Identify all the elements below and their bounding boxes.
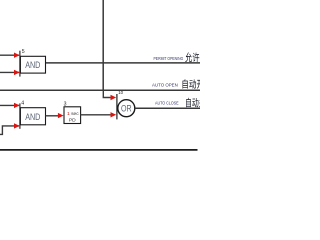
AND gate U1 input rail	[19, 51, 21, 77]
net label 允许 (vector CJK)	[185, 52, 192, 62]
OR gate U3	[118, 100, 135, 117]
wire: vertical bus line	[102, 0, 104, 90]
arrow into OR input 1	[111, 95, 117, 100]
svg-text:AUTO CLOSE: AUTO CLOSE	[155, 101, 179, 106]
wire: AND1 input 2	[0, 71, 19, 73]
AND gate U1	[20, 56, 45, 73]
svg-text:AUTO OPEN: AUTO OPEN	[152, 82, 178, 87]
wire: PERMIT OPENING output line	[46, 62, 201, 64]
arrow into AND2 input 2	[14, 123, 20, 128]
wire: AND2 input 2 elbow	[0, 126, 19, 134]
arrow into AND1 input 1	[14, 53, 20, 58]
AND gate U2	[20, 108, 45, 125]
wire: AUTO CLOSE output line	[135, 107, 200, 109]
wire: AND2 output to timer	[46, 115, 59, 117]
timer block 1 sec PD	[64, 107, 81, 124]
svg-text:AND: AND	[25, 60, 41, 70]
svg-text:AND: AND	[25, 112, 41, 122]
AND gate U2 input rail	[19, 103, 21, 128]
wire: AND2 input 1	[0, 104, 19, 106]
svg-text:4: 4	[21, 100, 24, 106]
arrow into AND1 input 2	[14, 70, 20, 75]
arrow into OR input 2	[111, 112, 117, 117]
net label 自动开 (vector CJK)	[183, 79, 188, 88]
arrow into AND2 input 1	[14, 103, 20, 108]
wire: bottom border line	[0, 149, 198, 151]
svg-text:1 sec: 1 sec	[67, 111, 79, 117]
arrow into timer input	[58, 113, 64, 118]
net label 自动关 (vector CJK)	[186, 98, 191, 107]
wire: AND1 input 1	[0, 54, 19, 56]
svg-text:10: 10	[118, 90, 123, 95]
wire: AUTO OPEN line	[0, 89, 200, 91]
svg-text:5: 5	[22, 49, 25, 55]
wire: timer output to OR	[81, 114, 111, 116]
svg-text:PD: PD	[69, 117, 76, 123]
svg-text:OR: OR	[121, 104, 132, 114]
svg-text:PERMIT OPENING: PERMIT OPENING	[154, 56, 184, 61]
OR gate U3 input rail	[116, 94, 118, 119]
wire: elbow from AUTO OPEN line to OR input 1	[103, 90, 110, 97]
